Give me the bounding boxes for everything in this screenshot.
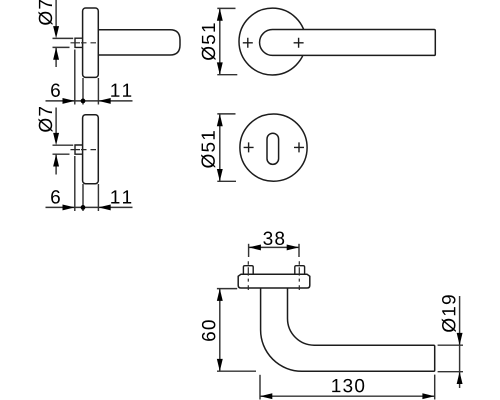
extension lines pin faces (view2) <box>53 144 74 146</box>
label 11 (view2) <box>111 190 131 203</box>
label Ø19 <box>442 295 456 332</box>
dim 60 line <box>219 289 221 372</box>
screw right <box>295 266 305 275</box>
label Ø51 (view4) <box>201 131 215 168</box>
keyhole slot <box>267 133 279 164</box>
dim Ø19 extension lines <box>438 344 463 346</box>
rose circle <box>239 8 306 75</box>
label 6 (view2) <box>51 190 60 204</box>
lever tube top view (L shape) <box>261 288 435 371</box>
label 6 (view1) <box>51 83 60 97</box>
bottom dim 6/11 (view1) extension lines <box>74 50 76 105</box>
dim 60 extension lines <box>217 288 237 290</box>
label Ø7 (view1) <box>38 0 52 25</box>
dim Ø51 (view4) <box>219 114 221 181</box>
label 130 <box>332 379 364 393</box>
dim 130 extension lines <box>259 375 261 400</box>
label 11 (view1) <box>111 84 131 97</box>
label Ø7 (view2) <box>38 107 52 132</box>
screw centerline right <box>298 261 300 290</box>
dim Ø19 line <box>459 296 461 388</box>
lever front outline <box>260 30 436 56</box>
label 60 <box>202 320 216 341</box>
extension lines pin faces (view1) <box>53 37 74 39</box>
label 38 <box>263 232 284 246</box>
dim line 6/11 (view2) <box>46 206 133 208</box>
dim 38 line <box>249 246 299 248</box>
screw left <box>243 266 253 275</box>
screw cross left (view4) <box>244 142 254 152</box>
key rosette side profile <box>83 115 99 184</box>
bottom dim 6/11 (view2) extension lines <box>74 156 76 211</box>
label Ø51 (view3) <box>201 23 215 60</box>
dim Ø7 line (view2) <box>55 108 57 134</box>
rosette side profile <box>83 8 99 77</box>
centerline through pin <box>71 42 97 44</box>
spindle pin <box>75 38 83 47</box>
screw centerline left <box>247 261 249 290</box>
mounting plate <box>238 274 310 288</box>
centerline through pin (view2) <box>71 149 97 151</box>
screw cross left (view3) <box>243 38 253 48</box>
dim 130 line <box>260 395 435 397</box>
screw cross right (view4) <box>294 142 304 152</box>
spindle pin (view2) <box>75 145 83 154</box>
key rose circle <box>240 114 307 181</box>
dim Ø7 line (view1) <box>55 0 57 27</box>
dim 38 extension lines <box>248 244 250 257</box>
screw cross right (view3) <box>294 38 304 48</box>
lever bar side view <box>98 30 180 55</box>
dim Ø51 (view3) <box>219 8 221 74</box>
dim line 6/11 (view1) <box>46 100 133 102</box>
